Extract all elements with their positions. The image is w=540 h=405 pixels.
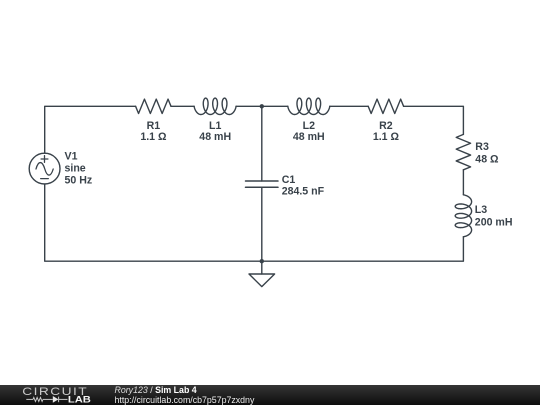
svg-text:284.5 nF: 284.5 nF: [282, 185, 325, 197]
svg-text:V1: V1: [65, 151, 78, 163]
svg-text:50 Hz: 50 Hz: [65, 174, 93, 186]
svg-text:L3: L3: [475, 204, 487, 216]
svg-text:200 mH: 200 mH: [475, 217, 513, 229]
svg-text:R2: R2: [379, 120, 393, 132]
wire: L3 to bottom rail: [262, 237, 464, 261]
label R1 / 1.1 &#937;: [140, 120, 167, 143]
CircuitLab logo: [0, 385, 95, 405]
label C1 / 284.5 nF: [282, 174, 325, 197]
label R2 / 1.1 &#937;: [373, 120, 400, 143]
svg-text:48 Ω: 48 Ω: [475, 153, 499, 165]
resistor R3: [456, 134, 470, 169]
wire: node A to C1 top plate: [261, 106, 263, 181]
inductor L1: [194, 98, 236, 114]
svg-text:L2: L2: [303, 120, 315, 132]
wire: C1 bottom plate to bottom rail: [261, 187, 263, 261]
svg-text:48 mH: 48 mH: [293, 131, 325, 143]
inductor L3: [455, 195, 471, 237]
resistor R1: [136, 99, 171, 113]
wire: R3 to L3: [462, 170, 464, 195]
wire: bottom rail left segment: [45, 184, 262, 261]
wire: top rail left segment (V1 top to R1): [45, 106, 136, 153]
capacitor C1: [246, 181, 279, 187]
svg-text:L1: L1: [209, 120, 221, 132]
footer bar: [0, 385, 540, 405]
label V1 / sine / 50 Hz: [65, 151, 93, 187]
ground: [249, 261, 275, 286]
node A (top junction dot): [260, 104, 264, 108]
svg-text:C1: C1: [282, 174, 296, 186]
footer title text: [115, 386, 255, 405]
svg-text:sine: sine: [65, 163, 86, 175]
svg-text:R3: R3: [475, 141, 489, 153]
label R3 / 48 &#937;: [475, 141, 499, 165]
resistor R2: [368, 99, 403, 113]
inductor L2: [288, 98, 330, 114]
wire: R1 to L1: [171, 105, 194, 107]
svg-text:LAB: LAB: [68, 394, 92, 404]
label L1 / 48 mH: [199, 120, 231, 143]
voltage source V1: [29, 153, 60, 184]
svg-text:48 mH: 48 mH: [199, 131, 231, 143]
svg-text:R1: R1: [147, 120, 161, 132]
node B (bottom junction dot): [260, 259, 264, 263]
wire: L2 to R2: [330, 105, 368, 107]
wire: L1 to node A: [236, 105, 288, 107]
label L3 / 200 mH: [475, 204, 513, 229]
label L2 / 48 mH: [293, 120, 325, 143]
wire: R2 to right rail down to R3: [404, 106, 464, 134]
svg-text:1.1 Ω: 1.1 Ω: [140, 131, 167, 143]
svg-text:1.1 Ω: 1.1 Ω: [373, 131, 400, 143]
